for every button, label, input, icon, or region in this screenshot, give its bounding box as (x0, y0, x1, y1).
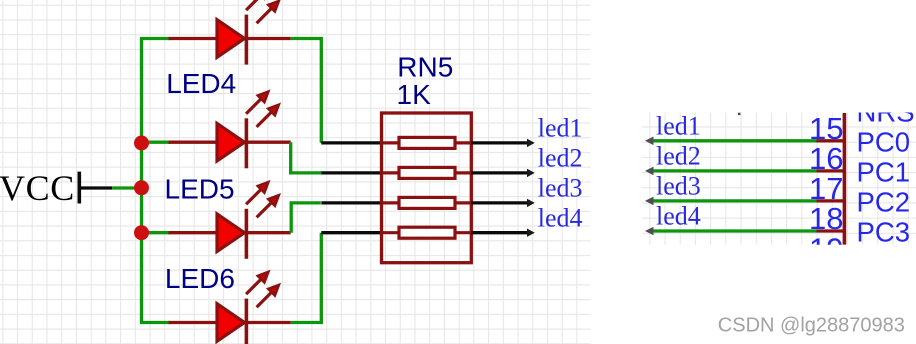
right fragment background (642, 96, 916, 266)
wire into RN5 pin 2 (black) (321, 171, 381, 174)
wire anode row 4 (green) (140, 321, 170, 324)
wire RN5 output 3 (black) (471, 201, 528, 204)
net arrow led2 (right) (645, 167, 654, 176)
RN5 internal lead right R2 (455, 171, 471, 174)
wire into RN5 pin 3 (black) (321, 201, 381, 204)
LED LED5 cathode pin (246, 231, 290, 234)
LED LED5 cathode bar (245, 209, 249, 259)
wire anode row 1 (green) (140, 37, 170, 40)
svg-text:led3: led3 (656, 172, 701, 201)
net arrow led4 (right) (645, 227, 654, 236)
IC pin stub 16 (817, 169, 846, 172)
resistor R2 of RN5 (399, 167, 455, 178)
wire net led3 (right, green) (650, 199, 817, 202)
LED LED3 light arrow 2 (257, 1, 279, 23)
LED LED4 light arrow 1 (246, 91, 268, 113)
LED LED4 cathode pin (246, 141, 290, 144)
LED LED5 light arrow 1 (246, 182, 268, 204)
LED LED4 triangle (anode) (217, 123, 245, 161)
IC pin stub 18 (817, 229, 846, 232)
LED LED3 cathode bar (245, 15, 249, 65)
LED LED4 anode pin (169, 141, 218, 144)
wire RN5 output 1 (black) (471, 141, 528, 144)
LED LED6 cathode bar (245, 299, 249, 344)
LED LED4 cathode bar (245, 118, 249, 168)
svg-text:led1: led1 (656, 111, 701, 140)
net arrow led3 (left) (527, 199, 535, 207)
power port VCC bar (78, 172, 82, 204)
RN5 internal lead left R3 (382, 201, 400, 204)
svg-text:led2: led2 (538, 144, 583, 173)
wire row2 cathode green corner down (291, 142, 322, 173)
watermark CSDN @lg28870983 (717, 313, 905, 336)
wire row4 cathode green to corner up (291, 233, 322, 323)
LED LED6 light arrow 1 (246, 272, 268, 294)
LED LED6 anode pin (169, 321, 218, 324)
LED LED6 cathode pin (246, 321, 290, 324)
resistor network RN5 body box (382, 113, 472, 263)
wire anode row 3 (green) (142, 231, 171, 234)
wire RN5 output 2 (black) (471, 171, 528, 174)
svg-text:led1: led1 (538, 114, 583, 143)
LED LED5 light arrow 2 (257, 195, 279, 217)
svg-text:led4: led4 (656, 202, 701, 231)
RN5 internal lead left R1 (382, 141, 400, 144)
wire anode row 2 (green) (142, 141, 171, 144)
svg-text:LED4: LED4 (166, 68, 236, 99)
LED LED3 anode pin (169, 37, 218, 40)
net arrow led3 (right) (645, 197, 654, 206)
svg-text:LED6: LED6 (165, 263, 235, 294)
LED LED5 triangle (anode) (217, 214, 245, 252)
wire net led1 (right, green) (650, 139, 817, 142)
junction dot 3 on VCC bus (134, 225, 149, 240)
IC body edge (843, 113, 847, 245)
wire net led2 (right, green) (650, 169, 817, 172)
LED LED5 anode pin (169, 231, 218, 234)
wire VCC vertical bus (140, 39, 143, 323)
svg-text:PC0: PC0 (857, 126, 911, 157)
wire RN5 output 4 (black) (471, 231, 528, 234)
svg-text:RN5: RN5 (397, 52, 453, 83)
wire row3 cathode green corner up (291, 203, 321, 233)
RN5 internal lead right R1 (455, 141, 471, 144)
RN5 internal lead right R4 (455, 231, 471, 234)
RN5 internal lead left R4 (382, 231, 400, 234)
RN5 internal lead left R2 (382, 171, 400, 174)
svg-text:led4: led4 (538, 203, 583, 232)
wire into RN5 pin 1 (black) (321, 141, 381, 144)
svg-text:led3: led3 (538, 174, 583, 203)
svg-text:PC2: PC2 (857, 187, 911, 218)
wire VCC port to net (black part) (79, 186, 112, 189)
LED LED3 cathode pin (246, 37, 290, 40)
LED LED4 light arrow 2 (257, 105, 279, 127)
net arrow led1 (right) (645, 137, 654, 146)
svg-text:1K: 1K (397, 79, 432, 110)
junction dot 2 on VCC bus (134, 180, 149, 195)
junction dot 1 on VCC bus (134, 136, 149, 151)
svg-text:VCC: VCC (0, 168, 75, 208)
svg-text:CSDN @lg28870983: CSDN @lg28870983 (718, 314, 905, 336)
IC pin stub 17 (817, 199, 846, 202)
resistor R4 of RN5 (399, 227, 455, 238)
RN5 internal lead right R3 (455, 201, 471, 204)
LED LED6 light arrow 2 (257, 285, 279, 307)
net arrow led1 (left) (527, 139, 535, 147)
IC pin stub 15 (817, 139, 846, 142)
resistor R3 of RN5 (399, 197, 455, 208)
net arrow led4 (left) (527, 229, 535, 237)
LED LED3 triangle (anode) (217, 20, 245, 58)
svg-text:PC1: PC1 (857, 157, 911, 188)
wire net led4 (right, green) (650, 229, 817, 232)
LED LED6 triangle (anode) (217, 304, 245, 342)
wire into RN5 pin 4 (black) (321, 231, 381, 234)
stray speck artifact (738, 113, 740, 115)
resistor R1 of RN5 (399, 137, 455, 148)
LED LED3 light arrow 1 (246, 0, 268, 10)
net arrow led2 (left) (527, 169, 535, 177)
svg-text:PC3: PC3 (857, 217, 911, 248)
wire row1 cathode green to corner (291, 39, 322, 143)
wire VCC port to net (green part) (112, 186, 141, 189)
svg-text:LED5: LED5 (165, 174, 235, 205)
svg-text:led2: led2 (656, 142, 701, 171)
